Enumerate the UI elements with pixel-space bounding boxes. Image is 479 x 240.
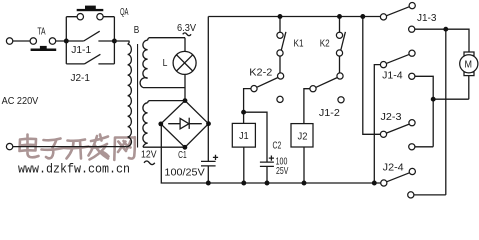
svg-text:12V: 12V [141, 148, 157, 160]
svg-text:www.dzkfw.com.cn: www.dzkfw.com.cn [18, 161, 130, 176]
svg-text:C2: C2 [273, 140, 282, 152]
svg-text:J1-1: J1-1 [71, 44, 91, 56]
svg-text:J2-3: J2-3 [381, 111, 402, 123]
svg-text:QA: QA [120, 6, 129, 18]
svg-text:B: B [134, 24, 140, 36]
svg-text:J2: J2 [298, 131, 308, 143]
svg-text:J2-1: J2-1 [70, 72, 90, 84]
svg-text:J1-3: J1-3 [417, 12, 437, 24]
svg-text:25V: 25V [276, 165, 288, 177]
svg-text:K2-2: K2-2 [249, 67, 272, 79]
svg-text:L: L [163, 57, 168, 69]
svg-text:K2: K2 [320, 37, 330, 49]
svg-text:6.3V: 6.3V [177, 22, 196, 34]
svg-text:100/25V: 100/25V [164, 167, 204, 179]
svg-text:AC 220V: AC 220V [2, 95, 39, 107]
svg-text:M: M [465, 59, 473, 71]
svg-text:J2-4: J2-4 [383, 162, 404, 174]
svg-text:J1-2: J1-2 [319, 107, 340, 119]
svg-text:C1: C1 [178, 149, 187, 161]
svg-text:J1: J1 [239, 130, 249, 142]
svg-text:TA: TA [37, 26, 45, 38]
svg-text:K1: K1 [294, 37, 304, 49]
svg-text:J1-4: J1-4 [382, 70, 403, 82]
